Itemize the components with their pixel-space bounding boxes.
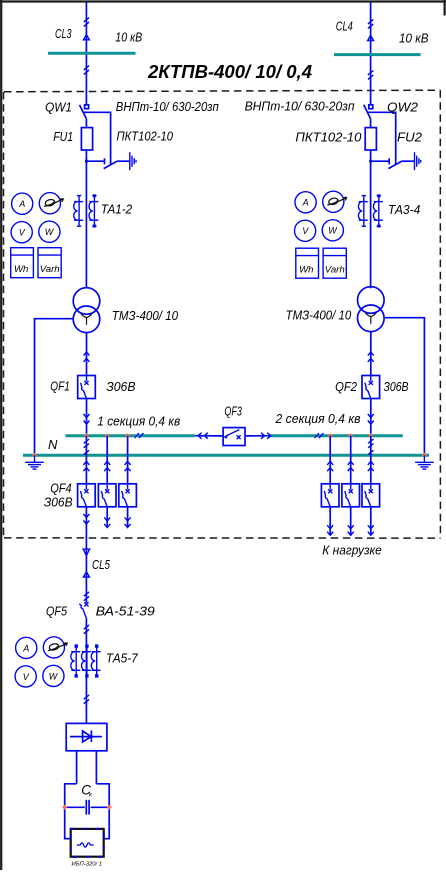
svg-text:QF3: QF3 (224, 403, 242, 418)
svg-text:10 кВ: 10 кВ (115, 30, 142, 45)
svg-text:QF4: QF4 (50, 480, 71, 495)
svg-text:ВНПт-10/ 630-20зп: ВНПт-10/ 630-20зп (116, 99, 219, 114)
svg-text:FU1: FU1 (53, 129, 73, 144)
svg-text:QF1: QF1 (50, 378, 70, 393)
svg-text:ТМЗ-400/ 10: ТМЗ-400/ 10 (112, 308, 179, 323)
svg-text:QW2: QW2 (387, 100, 419, 115)
svg-text:CL5: CL5 (92, 557, 111, 572)
svg-text:ИБП-320/ 1: ИБП-320/ 1 (72, 861, 103, 867)
svg-text:ТА5-7: ТА5-7 (106, 650, 139, 665)
svg-text:З06В: З06В (44, 494, 73, 509)
svg-text:N: N (48, 437, 58, 452)
svg-text:ТМЗ-400/ 10: ТМЗ-400/ 10 (286, 307, 352, 322)
svg-text:ВНПт-10/ 630-20зп: ВНПт-10/ 630-20зп (245, 99, 355, 114)
svg-text:QF5: QF5 (46, 603, 68, 618)
svg-text:2 секция 0,4 кв: 2 секция 0,4 кв (275, 411, 361, 426)
svg-text:К нагрузке: К нагрузке (322, 544, 382, 558)
svg-text:ТА1-2: ТА1-2 (101, 202, 133, 217)
svg-text:2КТПВ-400/ 10/ 0,4: 2КТПВ-400/ 10/ 0,4 (147, 62, 312, 82)
svg-text:ВА-51-39: ВА-51-39 (96, 603, 155, 618)
svg-text:CL3: CL3 (55, 26, 72, 41)
svg-text:З06В: З06В (106, 379, 136, 394)
svg-text:ПКТ102-10: ПКТ102-10 (117, 129, 174, 144)
svg-text:ТА3-4: ТА3-4 (388, 202, 421, 217)
svg-text:10 кВ: 10 кВ (399, 31, 429, 46)
svg-text:QW1: QW1 (45, 99, 72, 114)
svg-text:ПКТ102-10: ПКТ102-10 (295, 130, 362, 145)
svg-text:1 секция 0,4 кв: 1 секция 0,4 кв (97, 413, 180, 428)
svg-text:к: к (89, 792, 93, 799)
svg-text:CL4: CL4 (336, 19, 353, 34)
svg-text:FU2: FU2 (397, 130, 423, 145)
svg-text:QF2: QF2 (335, 379, 358, 394)
svg-text:З06В: З06В (384, 379, 409, 394)
